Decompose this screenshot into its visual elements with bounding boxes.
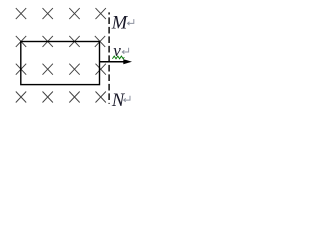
svg-text:N: N [111,91,126,111]
svg-text:M: M [111,13,129,33]
